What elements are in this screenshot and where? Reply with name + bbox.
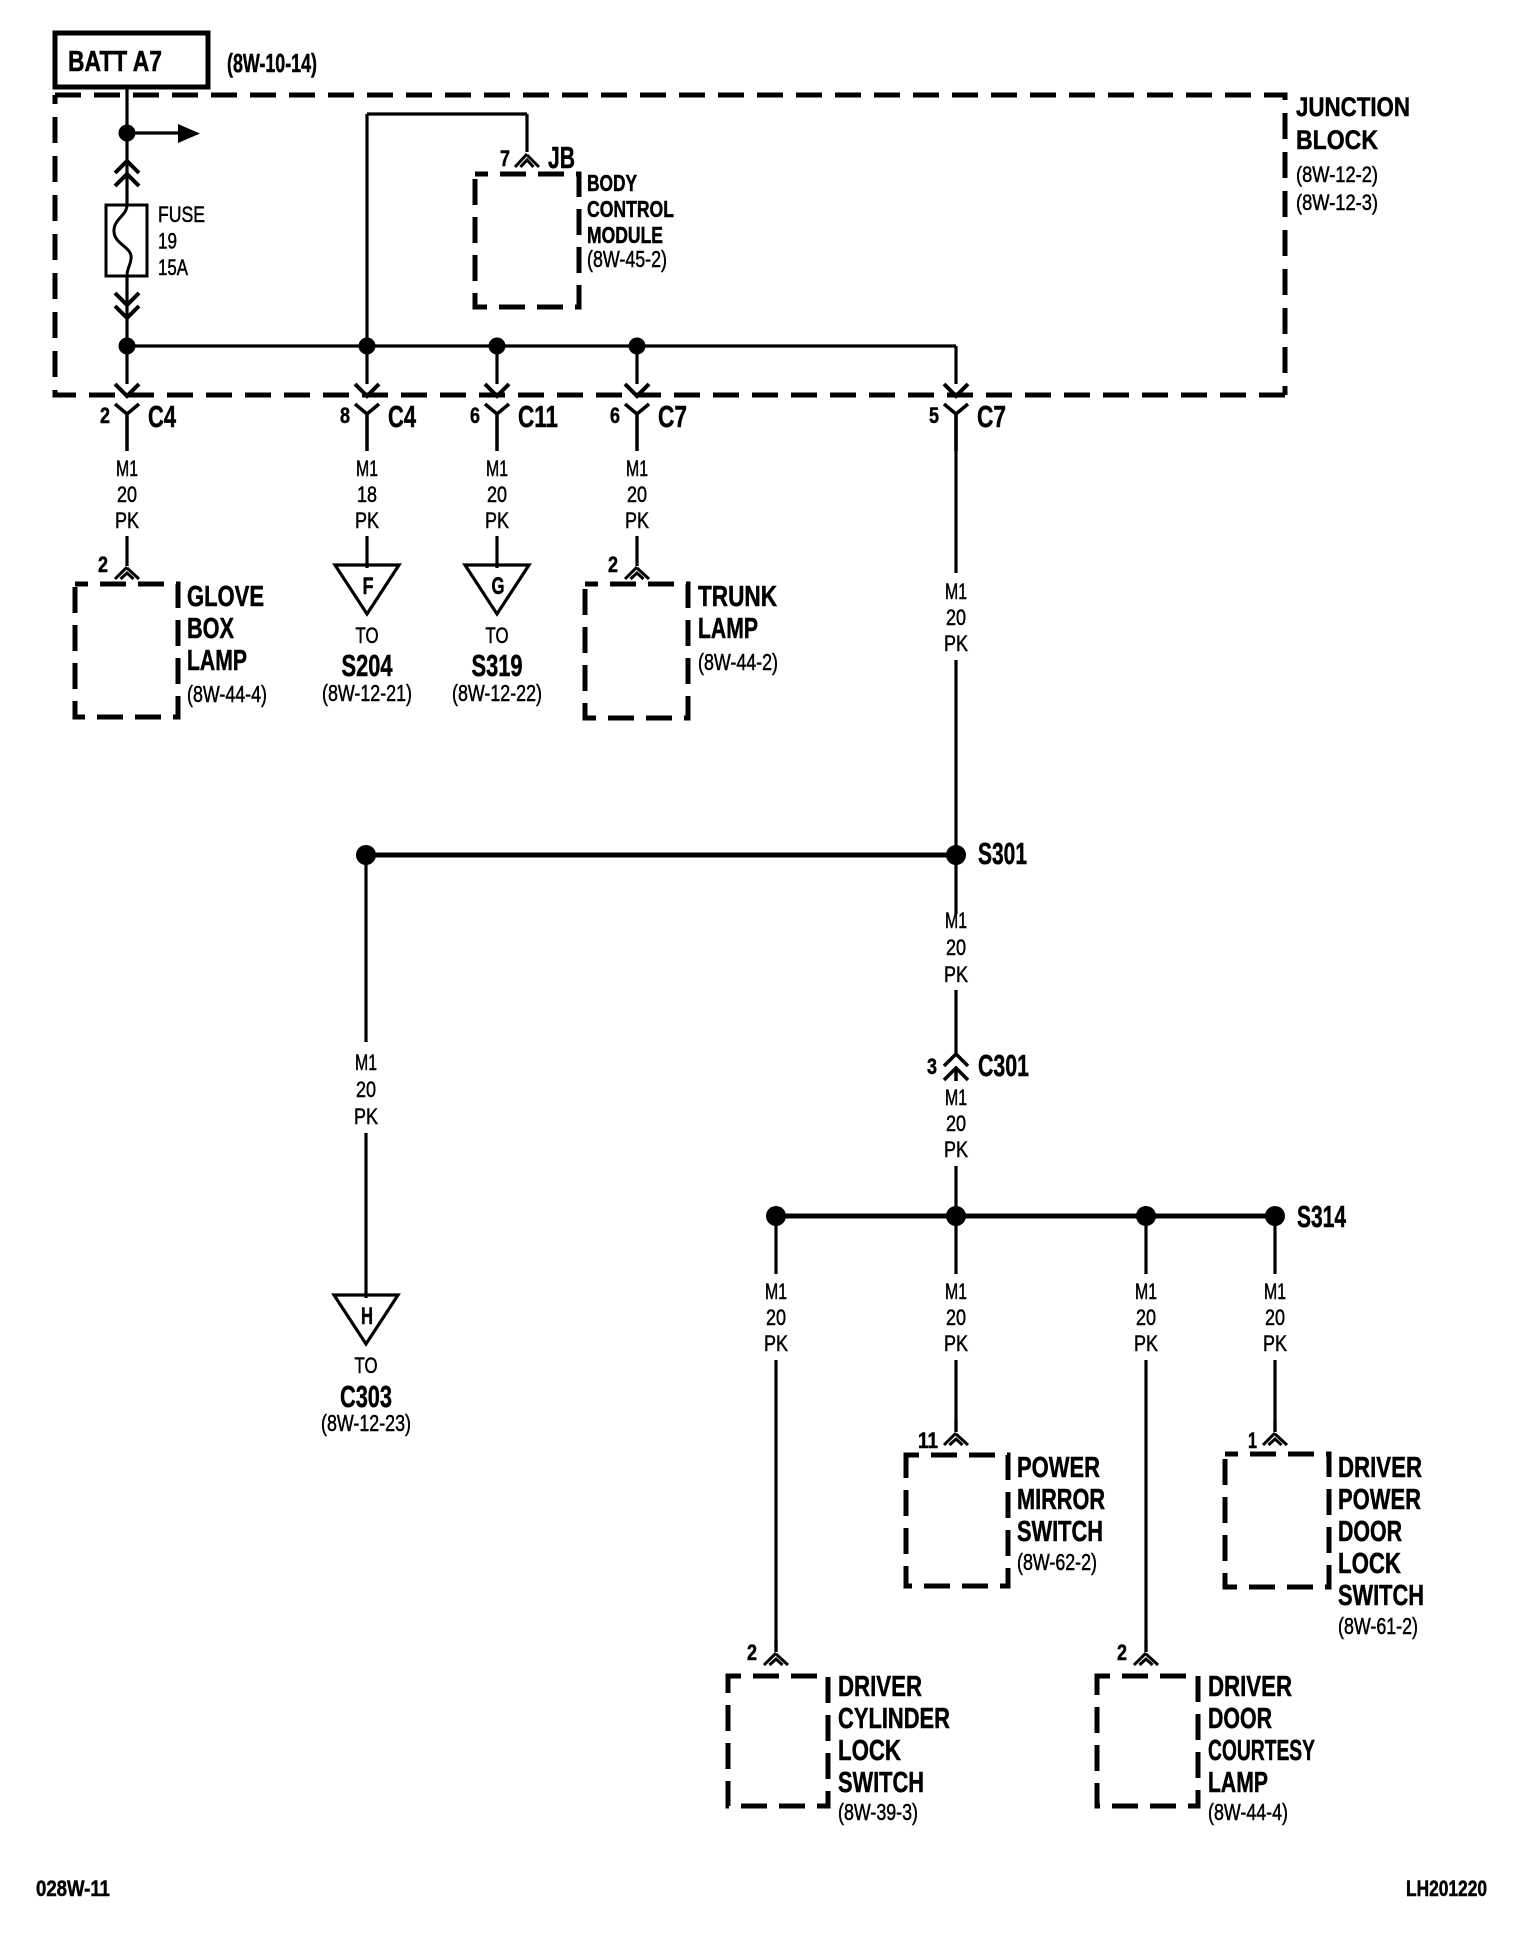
svg-text:2: 2 [608,552,618,577]
pin 2 at trunk lamp [608,552,618,577]
node S314 branch 2 [946,1206,966,1226]
node S314 [1265,1206,1285,1226]
body control module label [587,170,674,272]
svg-text:TO: TO [356,623,379,648]
svg-text:20: 20 [627,482,647,507]
svg-text:LH201220: LH201220 [1406,1876,1487,1901]
svg-text:DOOR: DOOR [1208,1703,1272,1735]
wire label M1 20 PK (branch at x=1275) [1263,1279,1287,1356]
wire label M1 20 PK (S319 branch) [485,456,509,533]
svg-text:(8W-12-2): (8W-12-2) [1296,162,1378,187]
node S314 branch 1 [766,1206,786,1226]
label S314 [1297,1199,1347,1234]
node on bus at fuse branch [119,338,136,355]
svg-text:20: 20 [946,1305,966,1330]
svg-text:028W-11: 028W-11 [36,1876,110,1901]
svg-text:M1: M1 [1135,1279,1157,1304]
svg-text:(8W-12-23): (8W-12-23) [321,1410,411,1436]
svg-text:C303: C303 [340,1379,392,1414]
driver door courtesy lamp label [1208,1671,1315,1825]
svg-text:SWITCH: SWITCH [838,1767,924,1799]
svg-text:H: H [361,1303,373,1330]
wire label M1 20 PK (C7 branch) [944,579,968,656]
driver cylinder lock switch label [838,1671,950,1825]
svg-text:JUNCTION: JUNCTION [1296,92,1410,122]
node on bus at C11 branch [489,338,506,355]
wire S314 branch at x=1275 [1273,1216,1276,1274]
fuse label FUSE 19 15A [158,202,205,280]
node S314 branch 3 [1136,1206,1156,1226]
svg-text:PK: PK [764,1331,788,1356]
wire from BATT A7 down to fuse [125,87,128,205]
node: splice to other circuits [119,125,136,142]
driver cylinder lock switch dashed box [728,1676,828,1806]
svg-text:G: G [492,573,505,600]
svg-text:PK: PK [115,508,139,533]
svg-text:2: 2 [1117,1640,1127,1665]
svg-text:3: 3 [927,1054,937,1079]
svg-text:8: 8 [340,403,350,428]
svg-text:DRIVER: DRIVER [838,1671,922,1703]
svg-text:BODY: BODY [587,170,637,196]
fuse output connector chevrons [115,293,139,318]
wire into off-page triangle G [495,536,498,568]
off-page triangle H to C303 [334,1295,398,1344]
svg-text:(8W-39-3): (8W-39-3) [838,1799,918,1825]
wire to glove box lamp [115,536,139,579]
wire down to splice S314 [954,1166,957,1216]
wire label M1 20 PK (branch at x=776) [764,1279,788,1356]
fuse input connector chevrons [115,161,139,186]
wire label M1 18 PK (S204 branch) [355,456,379,533]
svg-text:6: 6 [470,403,480,428]
wire to power mirror switch [944,1360,968,1445]
svg-text:20: 20 [946,935,966,960]
node S301 left [356,845,376,865]
pin 2 at glove box lamp [98,552,108,577]
svg-text:M1: M1 [765,1279,787,1304]
svg-text:20: 20 [487,482,507,507]
svg-text:(8W-44-2): (8W-44-2) [698,649,778,675]
node on bus at C7 branch [629,338,646,355]
node S301 [946,845,966,865]
svg-text:PK: PK [355,508,379,533]
svg-text:POWER: POWER [1338,1484,1421,1516]
wire fuse to bus node [125,276,128,346]
svg-text:POWER: POWER [1017,1452,1100,1484]
svg-text:TO: TO [486,623,509,648]
svg-text:C7: C7 [977,399,1006,434]
svg-text:C4: C4 [148,399,177,434]
wire S301 left branch down [364,855,367,1042]
svg-text:(8W-12-3): (8W-12-3) [1296,190,1378,215]
wire label M1 20 PK (below C301) [944,1085,968,1162]
wire to body control module pin 7 [367,114,527,346]
svg-text:LAMP: LAMP [1208,1767,1268,1799]
connector C7 pin 6 exit from junction block [610,346,687,451]
footer sheet number 028W-11 [36,1876,110,1901]
svg-text:(8W-12-21): (8W-12-21) [322,680,412,706]
svg-text:BOX: BOX [187,613,234,645]
svg-text:M1: M1 [945,1085,967,1110]
svg-text:PK: PK [485,508,509,533]
svg-text:C301: C301 [978,1048,1029,1083]
svg-text:LOCK: LOCK [838,1735,901,1767]
pin 2 at driver cylinder lock switch [747,1640,757,1665]
svg-text:(8W-12-22): (8W-12-22) [452,680,542,706]
trunk lamp label [698,581,778,675]
svg-text:DRIVER: DRIVER [1338,1452,1422,1484]
power mirror switch dashed box [906,1455,1008,1586]
fuse 19 15A [106,205,147,276]
label TO S319 (8W-12-22) [452,623,542,706]
svg-text:PK: PK [354,1104,378,1129]
power feed box BATT A7 [55,33,208,87]
svg-text:SWITCH: SWITCH [1017,1516,1103,1548]
svg-text:S319: S319 [472,648,523,683]
svg-text:C7: C7 [658,399,687,434]
wire S314 branch at x=956 [954,1216,957,1274]
svg-text:M1: M1 [945,579,967,604]
connector C301 pin 3 [927,1048,1029,1083]
svg-text:COURTESY: COURTESY [1208,1735,1315,1767]
pin 2 at driver door courtesy lamp [1117,1640,1127,1665]
wire S301 down [954,855,957,914]
wire to driver cylinder lock switch [764,1360,788,1665]
svg-text:M1: M1 [945,908,967,933]
driver door courtesy lamp dashed box [1097,1676,1198,1806]
svg-text:1: 1 [1248,1428,1257,1453]
power mirror switch label [1017,1452,1105,1575]
svg-text:M1: M1 [1264,1279,1286,1304]
svg-text:LAMP: LAMP [698,613,758,645]
wire label M1 20 PK (glove box branch) [115,456,139,533]
pin 1 at driver power door lock switch [1248,1428,1257,1453]
footer code LH201220 [1406,1876,1487,1901]
svg-text:PK: PK [1134,1331,1158,1356]
body control module dashed box [475,174,579,307]
svg-text:PK: PK [944,631,968,656]
svg-text:7: 7 [500,146,510,171]
wire into off-page triangle F [365,536,368,568]
junction block label [1296,92,1410,215]
svg-text:(8W-45-2): (8W-45-2) [587,246,667,272]
svg-text:PK: PK [1263,1331,1287,1356]
svg-text:20: 20 [117,482,137,507]
svg-text:CONTROL: CONTROL [587,196,674,222]
svg-text:PK: PK [944,962,968,987]
junction block dashed boundary [55,95,1285,395]
connector C11 pin 6 exit from junction block [470,346,558,451]
glove box lamp dashed box [75,584,178,717]
svg-text:20: 20 [766,1305,786,1330]
svg-text:(8W-62-2): (8W-62-2) [1017,1549,1097,1575]
svg-text:M1: M1 [116,456,138,481]
wire to driver power door lock switch [1263,1360,1287,1445]
bus wire inside junction block [127,344,956,347]
svg-text:DOOR: DOOR [1338,1516,1402,1548]
svg-text:M1: M1 [356,456,378,481]
svg-text:5: 5 [929,403,939,428]
wire to driver door courtesy lamp [1134,1360,1158,1665]
label TO C303 (8W-12-23) [321,1353,411,1436]
svg-text:C11: C11 [518,399,558,434]
svg-text:20: 20 [946,605,966,630]
svg-text:19: 19 [158,229,177,254]
svg-text:11: 11 [918,1428,938,1453]
svg-text:F: F [363,573,374,600]
driver power door lock switch label [1338,1452,1424,1639]
node on bus at C4 branch [359,338,376,355]
svg-text:(8W-44-4): (8W-44-4) [187,681,267,707]
svg-text:S301: S301 [978,836,1027,871]
splice S301 horizontal wire [366,853,956,858]
wire label M1 20 PK (C303 branch) [354,1050,378,1129]
svg-text:20: 20 [946,1111,966,1136]
svg-text:JB: JB [548,140,575,175]
connector C7 pin 5 exit from junction block [929,346,1006,451]
svg-text:DRIVER: DRIVER [1208,1671,1292,1703]
svg-text:SWITCH: SWITCH [1338,1580,1424,1612]
svg-text:15A: 15A [158,255,188,280]
svg-text:PK: PK [944,1331,968,1356]
svg-text:M1: M1 [355,1050,377,1075]
svg-text:M1: M1 [945,1279,967,1304]
svg-text:PK: PK [625,508,649,533]
svg-text:GLOVE: GLOVE [187,581,264,613]
svg-text:20: 20 [1136,1305,1156,1330]
wire down to C301 [954,990,957,1054]
label S301 [978,836,1027,871]
off-page triangle G to S319 [465,565,529,614]
off-page triangle F to S204 [335,565,399,614]
wire label M1 20 PK (trunk lamp branch) [625,456,649,533]
svg-text:2: 2 [100,403,110,428]
arrow to other circuits [135,124,200,143]
wire C7 pin 5 down [954,414,957,573]
svg-text:MODULE: MODULE [587,222,663,248]
svg-text:20: 20 [1265,1305,1285,1330]
connector C4 pin 8 exit from junction block [340,346,417,451]
wire label M1 20 PK (branch at x=956) [944,1279,968,1356]
wire down to splice S301 [954,660,957,855]
wire to trunk lamp [625,536,649,579]
wire S314 branch at x=776 [774,1216,777,1274]
svg-text:PK: PK [944,1137,968,1162]
svg-text:M1: M1 [486,456,508,481]
svg-text:C4: C4 [388,399,417,434]
wire label M1 20 PK (branch at x=1146) [1134,1279,1158,1356]
svg-text:(8W-61-2): (8W-61-2) [1338,1613,1418,1639]
pin 11 at power mirror switch [918,1428,938,1453]
connector JB pin 7 at BCM [500,140,575,175]
svg-text:LAMP: LAMP [187,645,247,677]
svg-text:TO: TO [355,1353,378,1378]
trunk lamp dashed box [585,584,688,718]
svg-text:MIRROR: MIRROR [1017,1484,1105,1516]
svg-text:M1: M1 [626,456,648,481]
svg-text:LOCK: LOCK [1338,1548,1401,1580]
connector C4 pin 2 exit from junction block [100,346,177,451]
svg-text:2: 2 [747,1640,757,1665]
wire label M1 20 PK (above C301) [944,908,968,987]
svg-text:CYLINDER: CYLINDER [838,1703,950,1735]
label TO S204 (8W-12-21) [322,623,412,706]
svg-text:18: 18 [357,482,377,507]
splice S314 horizontal wire [776,1214,1275,1219]
driver power door lock switch dashed box [1225,1454,1329,1587]
svg-text:(8W-10-14): (8W-10-14) [227,48,317,78]
wire S314 branch at x=1146 [1144,1216,1147,1274]
svg-text:S204: S204 [342,648,394,683]
svg-text:(8W-44-4): (8W-44-4) [1208,1799,1288,1825]
svg-text:TRUNK: TRUNK [698,581,777,613]
svg-text:20: 20 [356,1077,376,1102]
wire into off-page triangle H [364,1133,367,1298]
svg-text:FUSE: FUSE [158,202,205,227]
svg-text:2: 2 [98,552,108,577]
glove box lamp label [187,581,267,707]
svg-text:BATT A7: BATT A7 [68,46,162,78]
svg-text:BLOCK: BLOCK [1296,125,1378,155]
svg-text:S314: S314 [1297,1199,1347,1234]
label (8W-10-14) [227,48,317,78]
svg-text:6: 6 [610,403,620,428]
